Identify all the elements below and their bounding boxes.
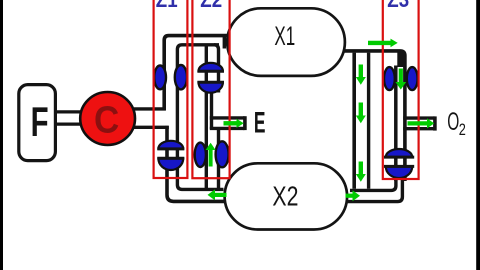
- svg-text:X1: X1: [274, 21, 295, 51]
- svg-text:Z2: Z2: [200, 0, 222, 12]
- svg-text:E: E: [254, 107, 266, 140]
- svg-text:X2: X2: [272, 181, 298, 213]
- svg-text:F: F: [31, 98, 49, 146]
- svg-text:2: 2: [459, 120, 466, 139]
- svg-text:O: O: [447, 109, 459, 137]
- svg-text:Z3: Z3: [387, 0, 409, 12]
- svg-text:C: C: [94, 98, 119, 141]
- svg-text:Z1: Z1: [156, 0, 178, 12]
